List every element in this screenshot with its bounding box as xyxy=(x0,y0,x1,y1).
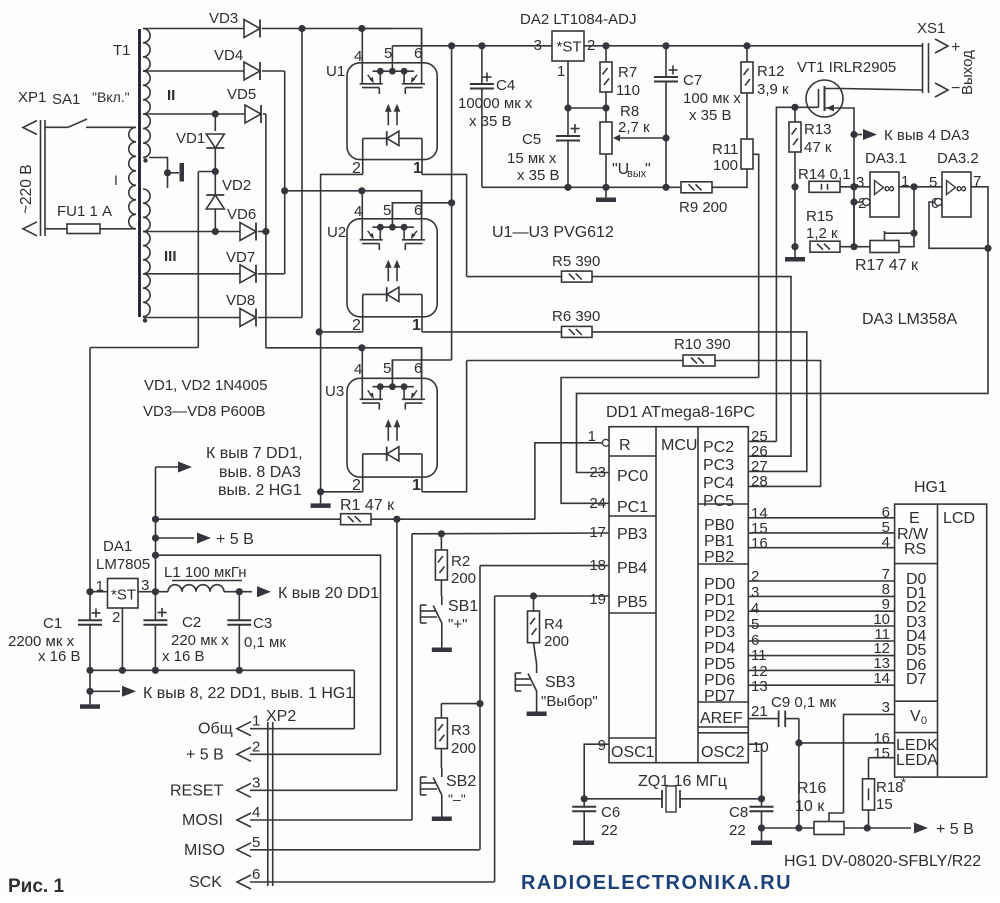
svg-text:ZQ1 16 МГц: ZQ1 16 МГц xyxy=(638,773,727,790)
XP2 pin 5 MISO xyxy=(184,834,480,859)
svg-text:+ 5 В: + 5 В xyxy=(216,531,254,548)
svg-text:VD7: VD7 xyxy=(226,249,255,266)
svg-text:PD3: PD3 xyxy=(704,624,735,641)
wire LEDA xyxy=(869,757,895,759)
svg-text:6: 6 xyxy=(252,866,260,883)
svg-text:C4: C4 xyxy=(496,77,515,94)
XP2 pin 1 Общ xyxy=(198,713,354,738)
svg-text:вых: вых xyxy=(627,168,647,180)
crystal ZQ1 xyxy=(584,773,765,812)
wire U1 pin2 to LED bus xyxy=(321,174,363,491)
ground at SB1 xyxy=(432,643,452,652)
wire OSC2 pin10 xyxy=(748,744,761,799)
label Vyhod xyxy=(959,50,976,95)
svg-text:R: R xyxy=(619,437,631,454)
svg-text:VD6: VD6 xyxy=(227,206,256,223)
svg-text:R3: R3 xyxy=(451,722,470,739)
ground at SB3 xyxy=(527,708,547,716)
arrow K vyv 20 DD1 xyxy=(257,585,379,602)
ground at C6 xyxy=(573,841,594,846)
MCU pin1 reset xyxy=(535,428,609,520)
capacitor C5 xyxy=(507,124,580,187)
svg-text:2: 2 xyxy=(252,738,260,755)
resistor R9 xyxy=(679,182,727,216)
svg-text:R10 390: R10 390 xyxy=(674,336,731,353)
svg-text:2: 2 xyxy=(112,609,120,626)
svg-text:PD2: PD2 xyxy=(704,608,735,625)
svg-text:110: 110 xyxy=(616,82,640,99)
wire PD6 to D6 xyxy=(748,669,894,671)
svg-text:FU1 1 А: FU1 1 А xyxy=(57,203,112,220)
svg-text:VD1: VD1 xyxy=(176,130,205,147)
wire VT1 source xyxy=(842,108,858,247)
svg-text:R12: R12 xyxy=(757,63,785,80)
wire VD4 row xyxy=(143,70,244,72)
svg-text:HG1 DV-08020-SFBLY/R22: HG1 DV-08020-SFBLY/R22 xyxy=(784,853,981,870)
capacitor C1 xyxy=(8,592,102,671)
svg-text:PD0: PD0 xyxy=(704,576,735,593)
svg-text:VD3: VD3 xyxy=(209,10,238,27)
svg-text:LCD: LCD xyxy=(943,510,975,527)
diode VD1 xyxy=(176,114,224,172)
svg-text:R18: R18 xyxy=(876,779,904,796)
svg-text:"Вкл.": "Вкл." xyxy=(92,89,130,105)
phase dot winding II xyxy=(143,158,147,162)
svg-text:1,2 к: 1,2 к xyxy=(806,225,838,242)
svg-text:SCK: SCK xyxy=(189,874,222,891)
svg-text:*ST: *ST xyxy=(557,39,582,56)
svg-text:PC3: PC3 xyxy=(703,457,734,474)
svg-text:15: 15 xyxy=(876,796,893,813)
svg-text:SB2: SB2 xyxy=(446,773,476,790)
svg-text:V: V xyxy=(910,708,921,725)
wire DA2 adj xyxy=(564,61,609,136)
transformer T1 core xyxy=(113,29,140,317)
svg-text:R14 0,1: R14 0,1 xyxy=(798,166,851,183)
wire LEDK row xyxy=(799,742,895,744)
wire VD7 cathode up xyxy=(258,273,285,275)
svg-text:PD1: PD1 xyxy=(704,592,735,609)
svg-text:R2: R2 xyxy=(451,553,470,570)
svg-text:15 мк х: 15 мк х xyxy=(507,150,557,167)
svg-text:"Выбор": "Выбор" xyxy=(541,693,598,710)
wire PC2 to gate xyxy=(748,440,776,442)
wire U3 pin1 to R10 xyxy=(422,361,467,492)
transistor VT1 xyxy=(795,59,896,117)
op-amp DA3.2 xyxy=(929,150,981,217)
diode VD8 xyxy=(226,292,256,327)
svg-text:22: 22 xyxy=(601,822,618,839)
wire R16 right xyxy=(844,824,911,831)
svg-text:R7: R7 xyxy=(618,64,637,81)
opto relay U2 xyxy=(327,191,437,334)
svg-text:0: 0 xyxy=(921,715,927,727)
svg-text:+ 5 В: + 5 В xyxy=(936,821,974,838)
svg-text:VD3—VD8 P600В: VD3—VD8 P600В xyxy=(143,403,266,420)
HG1 labels xyxy=(896,510,975,769)
capacitor C4 xyxy=(458,46,533,188)
svg-text:MCU: MCU xyxy=(661,437,697,454)
button SB3 xyxy=(515,643,597,710)
svg-text:C2: C2 xyxy=(182,614,201,631)
svg-text:U1: U1 xyxy=(326,63,345,80)
node VD1-VD2 xyxy=(198,168,219,348)
node VD4-VD7 xyxy=(281,187,288,274)
resistor R14 xyxy=(791,166,857,192)
wire DA2 out rail xyxy=(584,42,923,49)
wire U2 pin5 jog xyxy=(392,203,451,219)
resistor R6 xyxy=(552,308,600,337)
MCU pin numbers right xyxy=(751,428,769,756)
svg-text:К выв 4 DA3: К выв 4 DA3 xyxy=(884,127,969,144)
svg-text:1: 1 xyxy=(588,428,596,445)
ground at SB2 xyxy=(432,813,452,821)
svg-text:R16: R16 xyxy=(797,780,826,797)
XP2 pin 2 + 5 В xyxy=(186,738,381,763)
wire R15 right riser xyxy=(853,202,855,247)
wire VD4 cathode down xyxy=(262,71,285,191)
diode VD5 xyxy=(227,86,261,123)
svg-text:3,9 к: 3,9 к xyxy=(757,81,789,98)
diode VD6 xyxy=(227,206,256,241)
svg-text:1: 1 xyxy=(412,317,421,334)
wire R10 row xyxy=(467,360,683,362)
svg-text:DA2 LT1084-ADJ: DA2 LT1084-ADJ xyxy=(520,11,636,28)
wire gate riser xyxy=(776,107,795,441)
wire raw DC to DA1 xyxy=(90,348,198,592)
wire RESET riser xyxy=(396,519,398,790)
capacitor C6 xyxy=(572,799,620,841)
svg-text:R1 47 к: R1 47 к xyxy=(340,497,395,514)
svg-text:4: 4 xyxy=(252,804,260,821)
wire bus pins5 xyxy=(448,42,455,360)
svg-text:RS: RS xyxy=(904,541,926,558)
svg-text:4: 4 xyxy=(354,203,362,220)
svg-text:~220 В: ~220 В xyxy=(18,164,35,214)
svg-text:24: 24 xyxy=(589,495,606,512)
svg-text:4: 4 xyxy=(751,600,759,617)
svg-text:1: 1 xyxy=(252,713,260,730)
svg-text:C7: C7 xyxy=(683,72,702,89)
label VD3-VD8 type xyxy=(143,403,266,420)
wire PB3 row xyxy=(412,533,609,820)
svg-text:Рис. 1: Рис. 1 xyxy=(8,876,64,897)
svg-text:5: 5 xyxy=(252,834,260,851)
svg-text:L1 100 мкГн: L1 100 мкГн xyxy=(164,564,247,581)
wire L1 out xyxy=(224,588,252,595)
wire R6 row xyxy=(440,331,562,333)
svg-text:R11: R11 xyxy=(712,141,738,158)
capacitor C9 xyxy=(748,694,836,727)
label Uvyh xyxy=(612,161,651,180)
svg-text:0,1 мк: 0,1 мк xyxy=(244,634,286,651)
wire VD6 cathode xyxy=(258,231,266,233)
ground at R15 xyxy=(785,247,805,262)
svg-text:PC0: PC0 xyxy=(617,468,648,485)
svg-text:22: 22 xyxy=(729,822,746,839)
MCU pin numbers left xyxy=(589,464,606,754)
wire DA3.1 out xyxy=(899,183,942,233)
ground at C1 xyxy=(80,691,100,709)
label Ris 1 xyxy=(8,876,64,897)
svg-text:10 к: 10 к xyxy=(795,798,825,815)
winding III xyxy=(143,189,177,317)
wire +5 feeder xyxy=(152,467,159,592)
svg-text:VD5: VD5 xyxy=(227,86,256,103)
svg-text:10: 10 xyxy=(752,739,769,756)
capacitor C3 xyxy=(227,592,286,671)
resistor R2 xyxy=(435,530,476,587)
svg-text:LEDA: LEDA xyxy=(896,752,938,769)
svg-text:DA3.1: DA3.1 xyxy=(865,150,907,167)
svg-text:T1: T1 xyxy=(113,42,131,59)
wire R9 to R11 xyxy=(712,169,747,187)
label VD1 VD2 type xyxy=(144,377,267,394)
svg-text:3: 3 xyxy=(252,774,260,791)
wire U2 top row xyxy=(285,187,422,219)
svg-text:16: 16 xyxy=(751,535,768,552)
svg-text:К выв 7 DD1,: К выв 7 DD1, xyxy=(206,445,303,462)
MCU DD1 box xyxy=(606,404,755,763)
wire C9 down xyxy=(795,719,802,832)
wire +5 row xyxy=(762,827,815,829)
wire R10 to PC5 xyxy=(715,361,821,487)
svg-text:U3: U3 xyxy=(325,383,344,400)
svg-text:R8: R8 xyxy=(620,103,639,120)
capacitor C8 xyxy=(729,799,774,841)
svg-text:К выв 20 DD1: К выв 20 DD1 xyxy=(278,585,379,602)
wire DA3.1 pin2 xyxy=(854,201,863,203)
svg-text:выв. 2 HG1: выв. 2 HG1 xyxy=(218,482,302,499)
svg-text:VD2: VD2 xyxy=(222,177,251,194)
svg-text:х 35 В: х 35 В xyxy=(469,113,512,130)
svg-text:": " xyxy=(645,161,651,178)
wire U3 pin5 jog xyxy=(392,360,451,378)
svg-text:Общ: Общ xyxy=(198,721,233,738)
resistor R18 xyxy=(863,758,907,828)
wire PD5 to D5 xyxy=(748,655,894,657)
wire PD4 to D4 xyxy=(748,640,894,642)
svg-text:RESET: RESET xyxy=(170,782,224,799)
svg-text:х 35 В: х 35 В xyxy=(689,107,732,124)
svg-text:R5 390: R5 390 xyxy=(552,253,600,270)
diode VD7 xyxy=(226,249,256,283)
LCD HG1 box xyxy=(895,479,987,777)
wire PD1 to D1 xyxy=(748,595,894,597)
resistor R4 xyxy=(528,592,570,650)
wire DA1 pin2 xyxy=(121,608,123,670)
svg-text:OSC2: OSC2 xyxy=(701,744,745,761)
svg-text:HG1: HG1 xyxy=(914,479,947,496)
svg-text:х 16 В: х 16 В xyxy=(162,648,205,665)
switch SA1 xyxy=(45,89,136,127)
label HG1 type xyxy=(784,853,981,870)
resistor R11 xyxy=(712,139,753,174)
wire V0 riser xyxy=(844,714,895,813)
wire R5 to PC3 xyxy=(592,277,791,457)
svg-text:200: 200 xyxy=(451,570,476,587)
svg-text:PD4: PD4 xyxy=(704,640,735,657)
inductor L1 xyxy=(164,564,247,592)
wire PD7 to D7 xyxy=(748,684,894,686)
svg-text:"–": "–" xyxy=(448,791,466,807)
svg-text:C1: C1 xyxy=(43,615,62,632)
wire R11 wiper xyxy=(753,154,759,377)
svg-text:10000 мк х: 10000 мк х xyxy=(458,95,533,112)
resistor R15 xyxy=(791,187,857,252)
svg-text:C9 0,1 мк: C9 0,1 мк xyxy=(771,694,837,711)
diode VD2 xyxy=(206,172,251,232)
svg-text:AREF: AREF xyxy=(700,710,743,727)
wire U1 top row corner xyxy=(362,29,422,63)
fuse FU1 xyxy=(45,203,136,234)
watermark radioelectronika xyxy=(521,872,792,894)
svg-text:SA1: SA1 xyxy=(52,91,80,108)
wire PD2 to D2 xyxy=(748,610,894,612)
svg-text:100: 100 xyxy=(713,157,738,174)
svg-text:"+": "+" xyxy=(448,616,467,633)
svg-text:VT1 IRLR2905: VT1 IRLR2905 xyxy=(797,59,896,76)
resistor R7 xyxy=(600,46,640,122)
resistor R12 xyxy=(741,46,789,139)
svg-text:19: 19 xyxy=(589,591,606,608)
svg-text:3: 3 xyxy=(856,174,864,191)
svg-text:DA1: DA1 xyxy=(103,538,132,555)
svg-text:R13: R13 xyxy=(804,121,832,138)
capacitor C2 xyxy=(143,592,229,671)
regulator DA1 xyxy=(96,538,151,626)
resistor R17 (tuning) xyxy=(854,230,919,274)
connector XP2 xyxy=(266,708,296,886)
resistor R3 xyxy=(435,700,483,757)
wire to DA1 input xyxy=(86,588,107,595)
wire VD6 row xyxy=(143,228,240,235)
wire OSC1 pin9 xyxy=(581,744,609,802)
arrow K vyv 4 DA3 xyxy=(854,127,969,144)
diode VD4 xyxy=(214,47,260,80)
svg-text:х 16 В: х 16 В xyxy=(38,648,81,665)
svg-text:R17 47 к: R17 47 к xyxy=(855,257,919,274)
svg-text:220 мк х: 220 мк х xyxy=(171,632,229,649)
wire VD5 cathode down xyxy=(262,114,269,348)
ground at DA2 rail xyxy=(596,187,616,202)
wire PB4 riser xyxy=(480,566,609,850)
svg-text:9: 9 xyxy=(598,737,606,754)
arrow K vyv 7 DD1 xyxy=(156,445,303,499)
svg-text:C3: C3 xyxy=(253,615,272,632)
svg-text:PB0: PB0 xyxy=(704,517,734,534)
svg-text:3: 3 xyxy=(882,699,890,716)
svg-text:13: 13 xyxy=(751,678,768,695)
svg-text:C8: C8 xyxy=(729,804,748,821)
regulator DA2 xyxy=(520,11,636,80)
svg-text:XP1: XP1 xyxy=(18,89,46,106)
svg-text:MOSI: MOSI xyxy=(182,812,223,829)
wire R6 to PC4 xyxy=(592,332,807,472)
svg-text:DA3.2: DA3.2 xyxy=(937,150,979,167)
svg-text:RADIOELECTRONIKA.RU: RADIOELECTRONIKA.RU xyxy=(521,872,792,894)
svg-text:3: 3 xyxy=(534,37,542,54)
diode VD3 xyxy=(209,10,260,38)
svg-text:PB4: PB4 xyxy=(617,560,647,577)
svg-text:III: III xyxy=(164,248,177,265)
capacitor C7 xyxy=(654,46,741,188)
svg-text:PB3: PB3 xyxy=(617,526,647,543)
svg-text:5: 5 xyxy=(383,202,391,219)
connector XP1 xyxy=(18,89,46,236)
MCU pin labels left column xyxy=(611,437,745,761)
wire VD7 row xyxy=(143,273,240,275)
winding II xyxy=(143,29,175,158)
svg-text:х 35 В: х 35 В xyxy=(517,167,560,184)
phase dot winding III xyxy=(143,318,147,322)
wire PB2 to RS xyxy=(748,547,894,549)
svg-text:3: 3 xyxy=(751,584,759,601)
svg-text:SB1: SB1 xyxy=(448,598,478,615)
wire DA3.2 feedback xyxy=(929,202,992,252)
svg-text:2: 2 xyxy=(751,568,759,585)
resistor R5 xyxy=(552,253,600,282)
svg-text:XS1: XS1 xyxy=(917,20,945,37)
wire PB5 row xyxy=(495,596,609,882)
center tap junction xyxy=(149,158,184,189)
svg-text:PB1: PB1 xyxy=(704,533,734,550)
svg-text:5: 5 xyxy=(751,616,759,633)
wire VD8 cathode up xyxy=(258,317,302,319)
svg-text:выв. 8 DA3: выв. 8 DA3 xyxy=(219,464,301,481)
svg-text:DD1 ATmega8-16PC: DD1 ATmega8-16PC xyxy=(606,404,755,421)
connector XS1 xyxy=(917,20,960,97)
wire common rail xyxy=(86,667,354,729)
svg-text:PB5: PB5 xyxy=(617,594,647,611)
svg-text:PC4: PC4 xyxy=(703,475,734,492)
svg-text:15: 15 xyxy=(873,745,890,762)
wire U1 pin1 to R5 xyxy=(422,174,467,276)
svg-text:C6: C6 xyxy=(601,804,620,821)
wire VD3 cathode to U1 row xyxy=(262,25,393,32)
svg-text:1: 1 xyxy=(412,477,421,494)
wire R5 row xyxy=(467,276,562,278)
wire main bus to DA2 xyxy=(392,42,552,49)
svg-text:PB2: PB2 xyxy=(704,549,734,566)
wire gnd branch xyxy=(86,670,93,695)
potentiometer R16 xyxy=(795,780,844,835)
resistor R13 xyxy=(789,104,832,187)
svg-text:2,7 к: 2,7 к xyxy=(618,119,650,136)
ground at U3 pin2 xyxy=(311,492,331,508)
wire +5 to XP2 xyxy=(156,555,381,754)
svg-text:1: 1 xyxy=(413,160,422,177)
wire U2 pin2 to LED bus xyxy=(316,328,363,335)
svg-text:PC2: PC2 xyxy=(703,439,734,456)
winding I (primary) xyxy=(114,127,136,229)
op-amp DA3.1 xyxy=(856,150,909,217)
svg-text:R15: R15 xyxy=(806,208,834,225)
XP2 pin 6 SCK xyxy=(189,866,494,891)
svg-text:PD6: PD6 xyxy=(704,672,735,689)
opto relay U3 xyxy=(325,348,437,494)
wire PD0 to D0 xyxy=(748,580,894,582)
svg-text:LM7805: LM7805 xyxy=(96,556,150,573)
button SB1 xyxy=(421,580,479,643)
wire DA1 out xyxy=(138,588,168,595)
svg-text:1: 1 xyxy=(557,63,565,80)
svg-text:К выв 8, 22 DD1, выв. 1 HG1: К выв 8, 22 DD1, выв. 1 HG1 xyxy=(143,685,354,702)
button SB2 xyxy=(421,749,477,813)
svg-text:*ST: *ST xyxy=(111,587,136,604)
svg-text:200: 200 xyxy=(451,740,476,757)
svg-text:R9 200: R9 200 xyxy=(679,199,727,216)
